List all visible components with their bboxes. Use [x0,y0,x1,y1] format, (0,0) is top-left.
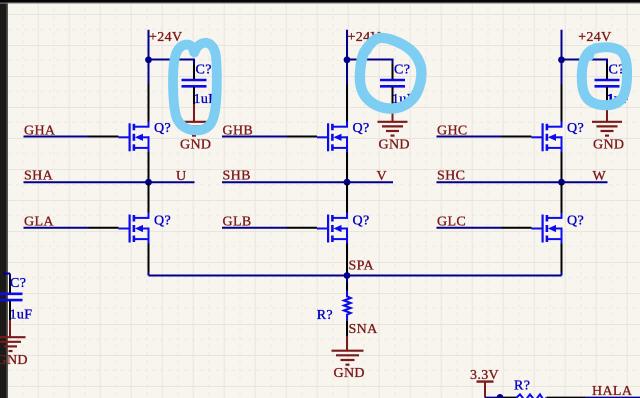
svg-text:HALA: HALA [592,384,633,398]
svg-text:SPA: SPA [349,258,375,273]
svg-text:Q?: Q? [154,214,171,229]
svg-text:Q?: Q? [353,121,370,136]
svg-text:V: V [377,169,387,184]
svg-text:GND: GND [334,366,365,381]
svg-text:R?: R? [514,378,530,393]
svg-text:C?: C? [394,63,410,78]
svg-text:C?: C? [10,276,26,291]
svg-text:GND: GND [180,137,211,152]
svg-text:1uF: 1uF [10,307,33,322]
svg-text:R?: R? [317,308,333,323]
svg-text:GND: GND [593,137,624,152]
svg-text:GND: GND [0,353,28,368]
svg-text:C?: C? [196,63,212,78]
svg-text:U: U [176,169,186,184]
svg-text:+24V: +24V [149,30,182,45]
svg-text:Q?: Q? [567,214,584,229]
svg-text:SNA: SNA [349,322,379,337]
svg-text:Q?: Q? [154,121,171,136]
svg-text:Q?: Q? [353,214,370,229]
svg-text:W: W [593,169,607,184]
svg-text:GND: GND [379,137,410,152]
svg-text:Q?: Q? [567,121,584,136]
